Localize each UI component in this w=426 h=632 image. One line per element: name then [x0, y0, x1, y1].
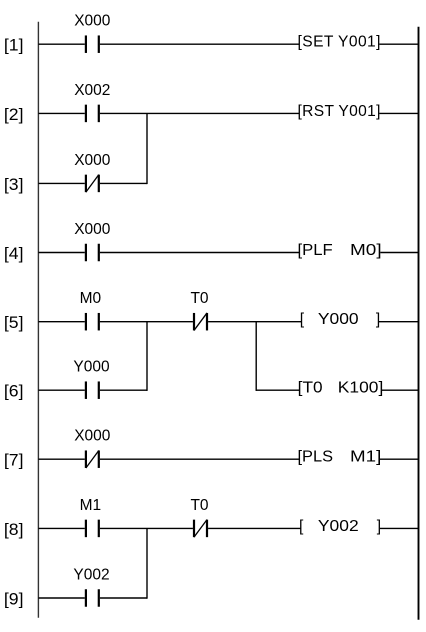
- svg-text:X000: X000: [74, 13, 111, 30]
- svg-text:[SET Y001]: [SET Y001]: [298, 34, 381, 51]
- wire rung6 to branch: [100, 389, 147, 391]
- contact X000 rung1 (NO): [86, 35, 99, 53]
- wire rung5 right: [379, 321, 419, 323]
- wire rung7 left: [38, 458, 84, 460]
- svg-text:[: [: [299, 518, 304, 535]
- wire rung7 middle: [100, 458, 299, 460]
- wire rung8 left: [38, 527, 84, 529]
- contact T0 rung8 (NC): [194, 520, 207, 538]
- svg-text:[8]: [8]: [4, 520, 24, 539]
- wire rung1 right: [379, 43, 418, 45]
- svg-text:[6]: [6]: [4, 382, 24, 401]
- contact M1 rung8 (NO): [86, 520, 99, 538]
- svg-text:X000: X000: [74, 152, 111, 169]
- contact T0 rung5 (NC): [194, 313, 207, 331]
- wire rung5 T0 to coil: [208, 321, 301, 323]
- svg-text:[PLF: [PLF: [298, 242, 333, 259]
- wire rung1 left: [38, 43, 84, 45]
- contact X000 rung3 (NC): [86, 175, 99, 193]
- svg-text:[RST Y001]: [RST Y001]: [298, 103, 381, 120]
- wire rung8 right: [380, 527, 419, 529]
- branch wire rung8-rung9: [146, 528, 148, 598]
- wire timer line right: [382, 389, 419, 391]
- svg-text:[2]: [2]: [4, 105, 24, 124]
- svg-text:M1: M1: [80, 497, 102, 514]
- svg-text:X000: X000: [74, 428, 111, 445]
- contact X002 rung2 (NO): [86, 105, 99, 123]
- svg-text:X002: X002: [74, 82, 110, 99]
- svg-text:[3]: [3]: [4, 175, 24, 194]
- wire rung5 left: [38, 321, 84, 323]
- svg-text:]: ]: [376, 311, 380, 328]
- svg-text:M0]: M0]: [350, 242, 382, 259]
- contact X000 rung7 (NC): [86, 450, 99, 468]
- wire rung2 middle: [100, 112, 299, 114]
- contact Y000 rung6 (NO): [86, 381, 99, 399]
- svg-text:[PLS: [PLS: [298, 449, 334, 466]
- svg-text:[5]: [5]: [4, 313, 24, 332]
- svg-text:[4]: [4]: [4, 244, 24, 263]
- svg-text:[: [: [300, 311, 305, 328]
- svg-text:[1]: [1]: [4, 36, 24, 55]
- svg-text:[T0: [T0: [298, 380, 323, 397]
- contact M0 rung5 (NO): [86, 313, 99, 331]
- branch wire rung5-rung6: [146, 322, 148, 391]
- svg-text:T0: T0: [190, 497, 208, 514]
- wire rung3 left: [38, 182, 84, 184]
- wire rung1 middle: [100, 43, 299, 45]
- svg-text:Y002: Y002: [318, 518, 359, 535]
- wire rung3 to branch: [100, 182, 147, 184]
- wire rung2 right: [379, 112, 418, 114]
- wire rung4 left: [38, 252, 84, 254]
- svg-text:X000: X000: [74, 221, 111, 238]
- wire rung9 to branch: [100, 597, 147, 599]
- svg-text:M0: M0: [80, 290, 102, 307]
- wire rung8 T0 to coil: [208, 527, 301, 529]
- wire rung6 left: [38, 389, 84, 391]
- wire rung7 right: [380, 458, 419, 460]
- svg-text:]: ]: [377, 518, 381, 535]
- svg-text:[9]: [9]: [4, 589, 24, 608]
- svg-text:M1]: M1]: [350, 449, 381, 466]
- wire rung5 M0 to T0: [100, 321, 193, 323]
- wire rung4 middle: [100, 252, 299, 254]
- svg-text:Y000: Y000: [318, 311, 359, 328]
- svg-text:K100]: K100]: [338, 380, 384, 397]
- wire rung9 left: [38, 597, 84, 599]
- branch wire rung2-rung3: [146, 113, 148, 184]
- svg-text:Y002: Y002: [73, 567, 109, 584]
- wire rung8 M1 to T0: [100, 527, 193, 529]
- svg-text:Y000: Y000: [73, 359, 110, 376]
- branch wire rung5 to timer line: [255, 322, 257, 391]
- wire rung2 left: [38, 112, 84, 114]
- left power rail: [37, 22, 39, 618]
- right power rail: [418, 27, 420, 620]
- contact Y002 rung9 (NO): [86, 589, 99, 607]
- contact X000 rung4 (NO): [86, 244, 99, 262]
- svg-text:[7]: [7]: [4, 451, 24, 470]
- svg-text:T0: T0: [190, 290, 208, 307]
- wire rung4 right: [380, 252, 418, 254]
- wire timer line left: [256, 389, 299, 391]
